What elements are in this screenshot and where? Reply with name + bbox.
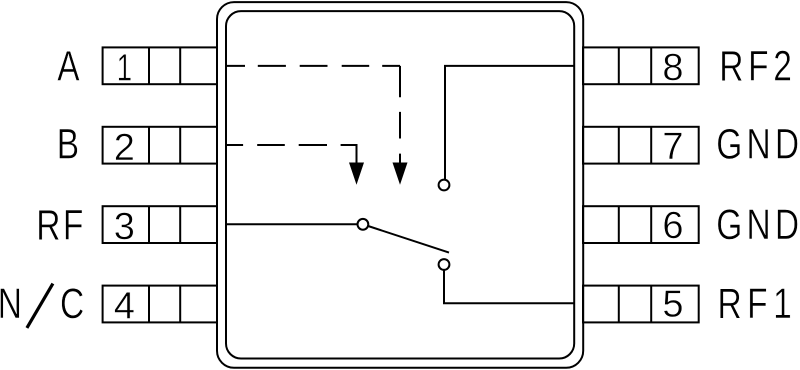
- svg-text:7: 7: [662, 126, 683, 168]
- pin 6 box: [583, 206, 699, 243]
- pin 8 box: [583, 47, 699, 84]
- wire pin2 control line dashed with corner: [226, 145, 357, 163]
- svg-text:3: 3: [114, 206, 135, 248]
- IC body U1 outer outline: [217, 2, 583, 368]
- svg-text:5: 5: [662, 284, 683, 326]
- pin 5 box: [583, 286, 699, 323]
- wire switch throw RF1 to pin5: [444, 270, 574, 303]
- IC body U1 inner outline: [226, 11, 574, 358]
- svg-text:N: N: [0, 280, 22, 328]
- svg-text:2: 2: [114, 127, 135, 169]
- pin 7 box: [583, 127, 699, 164]
- svg-text:RF2: RF2: [719, 43, 796, 91]
- switch arm blade: [368, 226, 449, 253]
- wire pin3 to switch pole: [226, 223, 357, 225]
- arrowhead pin2 control: [349, 163, 364, 185]
- arrowhead pin1 control: [393, 163, 408, 185]
- svg-text:6: 6: [662, 205, 683, 247]
- svg-text:4: 4: [114, 285, 135, 327]
- switch pole contact circle: [358, 219, 369, 230]
- pin 4 box: [103, 286, 217, 323]
- wire pin1 control line dashed horizontal: [227, 65, 401, 67]
- wire pin8 to switch throw RF2: [445, 66, 574, 180]
- switch throw contact circle RF1: [439, 259, 450, 270]
- svg-text:GND: GND: [716, 201, 800, 249]
- svg-text:B: B: [57, 121, 79, 169]
- svg-text:A: A: [57, 43, 80, 91]
- pin 2 box: [103, 127, 217, 164]
- svg-text:GND: GND: [716, 121, 800, 169]
- svg-text:8: 8: [662, 47, 683, 89]
- svg-text:1: 1: [117, 47, 132, 89]
- svg-text:RF1: RF1: [718, 280, 798, 328]
- svg-text:C: C: [60, 280, 84, 328]
- pin 3 box: [103, 206, 217, 243]
- switch throw contact circle RF2: [439, 180, 450, 191]
- svg-text:RF: RF: [36, 202, 86, 250]
- label N/C pin4 slash: [27, 284, 53, 328]
- wire pin1 control line dashed vertical: [399, 66, 401, 163]
- pin 1 box: [103, 47, 217, 84]
